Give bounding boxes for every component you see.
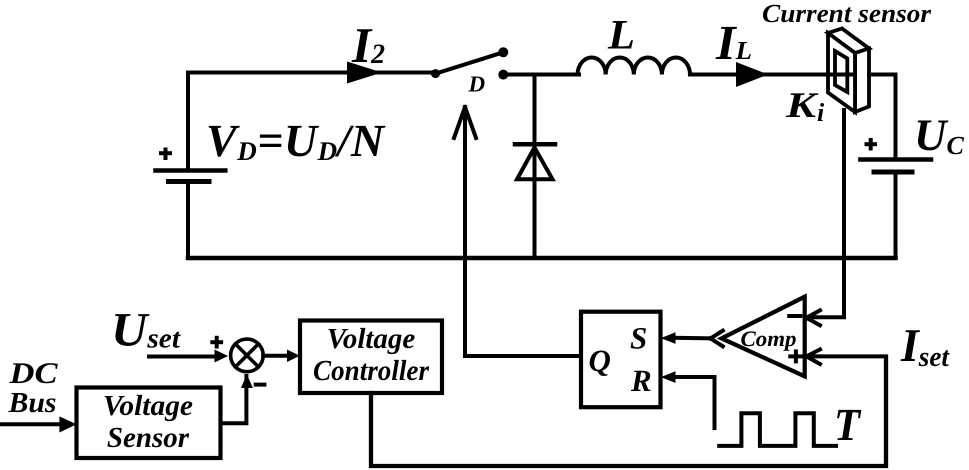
svg-text:D: D <box>468 72 486 97</box>
current sensor body <box>828 29 869 113</box>
wire through sensor window <box>800 73 852 77</box>
wire: gate drive vertical <box>463 108 467 356</box>
diode D1 triangle <box>517 148 553 180</box>
arrowhead: summer minus input <box>241 375 253 389</box>
arrowhead: gate drive up arrow <box>454 107 465 138</box>
voltage sensor box <box>77 388 221 459</box>
comparator plus sign <box>788 354 803 358</box>
UC bottom lead <box>894 174 898 258</box>
svg-text:Comp: Comp <box>741 326 797 351</box>
wire: sensor to output cap <box>869 73 896 77</box>
wire: comparator out to S input <box>673 336 711 341</box>
wire: latch Q to gate arrow <box>465 354 581 358</box>
source VD top lead <box>186 73 190 169</box>
VD bottom lead <box>186 184 190 259</box>
svg-text:DC: DC <box>8 357 58 390</box>
UC long plate <box>860 157 931 162</box>
bottom return wire <box>188 256 896 261</box>
wire: switch to inductor <box>503 73 579 77</box>
wire: source top to switch <box>188 71 434 75</box>
arrowhead: summer plus input <box>215 350 229 363</box>
wire: summer to controller <box>263 354 288 358</box>
svg-text:T: T <box>834 399 862 450</box>
VD long plate <box>156 168 226 173</box>
node: switch left contact <box>431 69 440 78</box>
svg-text:Bus: Bus <box>7 387 56 419</box>
svg-text:Voltage: Voltage <box>103 390 193 422</box>
chevron: comparator plus input <box>806 349 820 356</box>
node: switch blade tip <box>498 47 508 57</box>
arrowhead: S input <box>661 332 676 344</box>
svg-text:Voltage: Voltage <box>327 323 416 355</box>
comparator output chevron <box>711 331 723 339</box>
clock square wave <box>719 413 836 446</box>
summing junction <box>231 339 264 372</box>
wire: sensor output down to minus input <box>806 110 844 317</box>
wire: DC bus into voltage sensor <box>0 422 62 426</box>
minus sign at summer <box>254 383 267 387</box>
current arrow I2 <box>347 62 382 84</box>
diode D1 cathode bar <box>515 142 555 147</box>
svg-text:Current sensor: Current sensor <box>762 0 932 28</box>
voltage controller box <box>300 321 442 394</box>
svg-text:Sensor: Sensor <box>107 422 190 454</box>
svg-text:R: R <box>630 363 652 398</box>
wire: Uset to summer <box>149 355 216 359</box>
svg-text:Controller: Controller <box>313 355 430 387</box>
wire: controller output down and right <box>371 357 886 466</box>
switch blade <box>436 52 504 73</box>
capacitor/source UC top lead <box>894 75 898 159</box>
svg-text:Q: Q <box>589 343 611 378</box>
svg-text:i: i <box>817 98 825 127</box>
plus sign at summer <box>210 340 223 344</box>
inductor L <box>578 58 690 75</box>
arrowhead: voltage sensor input <box>59 416 76 432</box>
wire: inductor to current sensor <box>690 73 852 77</box>
current arrow IL <box>736 62 768 87</box>
svg-text:L: L <box>607 13 635 59</box>
wire: sensor feedback to summer <box>221 376 247 423</box>
UC short plate <box>874 170 912 175</box>
node: switch right contact <box>498 70 508 80</box>
chevron: comparator minus input <box>806 310 820 318</box>
svg-text:S: S <box>630 321 647 356</box>
VD short plate <box>169 179 210 184</box>
svg-text:K: K <box>785 85 820 125</box>
wire: clock to R input <box>673 377 715 428</box>
arrowhead: controller input <box>287 350 300 363</box>
arrowhead: R input <box>661 371 676 383</box>
UC plus sign <box>865 142 878 146</box>
comparator minus sign <box>787 314 802 318</box>
svg-text:VD=UD/N: VD=UD/N <box>206 115 386 166</box>
comparator triangle <box>722 297 805 377</box>
diode D1 vertical wire <box>533 75 537 259</box>
wire: Iset to plus input <box>806 354 886 358</box>
VD plus sign <box>159 151 172 155</box>
SR latch box U1 <box>581 312 661 408</box>
